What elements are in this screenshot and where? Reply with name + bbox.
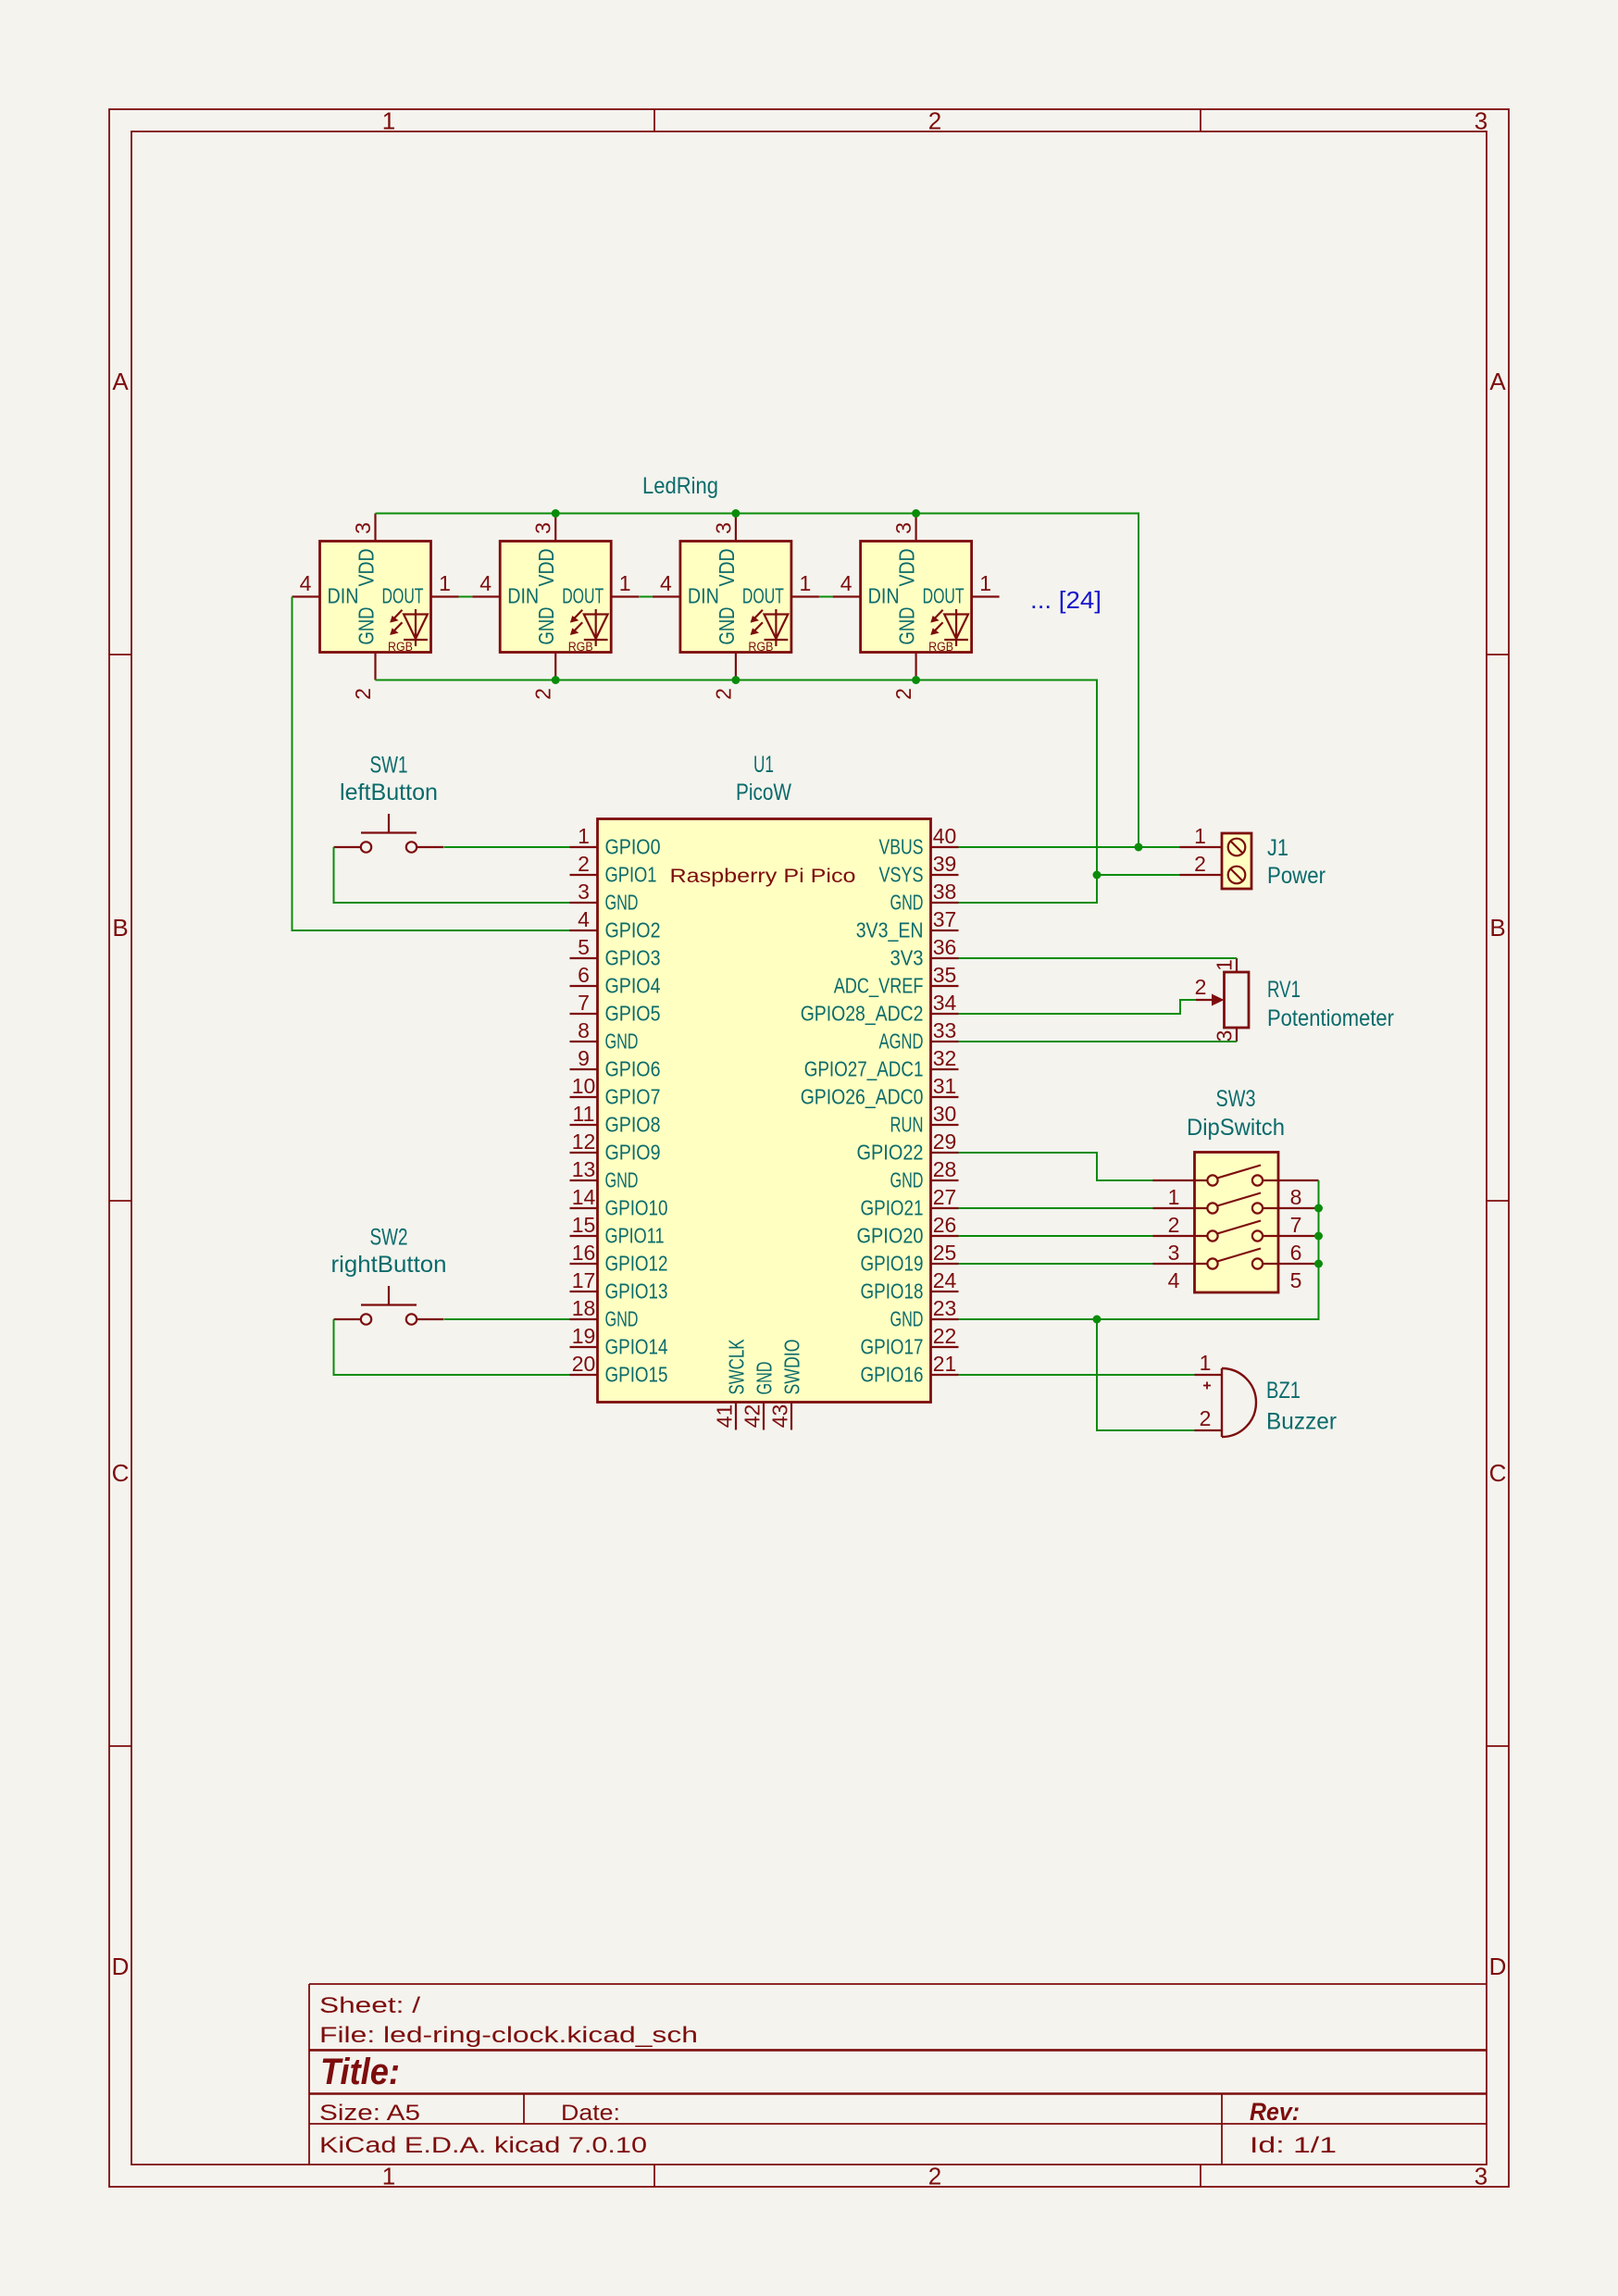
svg-text:Buzzer: Buzzer: [1266, 1409, 1337, 1435]
svg-text:2: 2: [1200, 1406, 1212, 1430]
svg-text:PicoW: PicoW: [736, 780, 791, 805]
svg-text:2: 2: [711, 688, 735, 700]
svg-text:GPIO0: GPIO0: [605, 835, 661, 859]
svg-text:GND: GND: [715, 607, 739, 645]
svg-text:2: 2: [891, 688, 915, 700]
SW3 pin 1: [1153, 1180, 1208, 1209]
LED D2 body: [500, 542, 611, 653]
sheet frame outer border: [109, 109, 1509, 2187]
svg-text:D: D: [1489, 1953, 1507, 1980]
svg-text:Sheet: /: Sheet: /: [319, 1993, 420, 2018]
svg-text:3: 3: [1213, 1030, 1237, 1042]
U1 pin 25 GPIO19: [861, 1241, 959, 1276]
frame column ticks: [654, 109, 1201, 2187]
junction VDD bus at D3: [731, 509, 740, 518]
svg-text:GPIO14: GPIO14: [605, 1335, 668, 1359]
U1 pin 29 GPIO22: [857, 1129, 959, 1165]
wire SW2 to GND pin18: [444, 1318, 570, 1320]
U1 pin 22 GPIO17: [861, 1324, 959, 1359]
junction SW3 pin6: [1314, 1232, 1323, 1241]
svg-text:29: 29: [933, 1129, 957, 1154]
svg-text:6: 6: [1290, 1241, 1302, 1265]
svg-text:Potentiometer: Potentiometer: [1267, 1005, 1394, 1031]
svg-text:7: 7: [1290, 1213, 1302, 1237]
buzzer BZ1 body: [1222, 1368, 1256, 1437]
svg-text:2: 2: [1194, 852, 1206, 876]
svg-text:25: 25: [933, 1241, 957, 1265]
svg-text:1: 1: [382, 2163, 395, 2190]
svg-text:1: 1: [979, 571, 991, 595]
svg-text:1: 1: [800, 571, 812, 595]
U1 pin 27 GPIO21: [861, 1185, 959, 1220]
svg-text:14: 14: [572, 1185, 596, 1209]
svg-text:VSYS: VSYS: [879, 863, 924, 887]
svg-text:AGND: AGND: [879, 1029, 924, 1054]
svg-text:15: 15: [572, 1213, 596, 1237]
svg-text:1: 1: [1200, 1351, 1212, 1375]
U1 pin 8 GND: [570, 1018, 639, 1054]
wire DOUT3-DIN4: [819, 596, 833, 598]
U1 pin 28 GND: [890, 1157, 959, 1192]
LED D1 RGB led glyph: [388, 609, 428, 654]
svg-text:32: 32: [933, 1046, 957, 1070]
wire GND drop to BZ1 pin2: [1097, 1319, 1195, 1430]
svg-text:GND: GND: [890, 1168, 924, 1192]
U1 pin 42 GND: [741, 1362, 777, 1430]
svg-text:18: 18: [572, 1296, 596, 1320]
frame column labels top: [382, 107, 1487, 135]
RV1 pin 3: [1213, 1028, 1238, 1042]
svg-text:GPIO1: GPIO1: [605, 863, 657, 887]
svg-text:GPIO19: GPIO19: [861, 1252, 924, 1276]
U1 pin 10 GPIO7: [570, 1074, 661, 1109]
svg-text:43: 43: [768, 1404, 792, 1429]
svg-text:DOUT: DOUT: [923, 584, 965, 608]
svg-text:rightButton: rightButton: [331, 1252, 447, 1278]
U1 pin 33 AGND: [879, 1018, 959, 1054]
RV1 pin 2 wiper: [1195, 975, 1225, 1006]
svg-text:2: 2: [531, 688, 555, 700]
LED D4 RGB led glyph: [928, 609, 968, 654]
svg-text:3: 3: [1475, 2163, 1487, 2190]
svg-text:1: 1: [619, 571, 631, 595]
svg-text:27: 27: [933, 1185, 957, 1209]
svg-text:GND: GND: [890, 891, 924, 915]
wire SW3 right bus to GND: [959, 1180, 1319, 1319]
junction GND buzzer drop: [1093, 1316, 1101, 1324]
svg-text:B: B: [112, 914, 128, 942]
LED D3 pin 3 VDD: [711, 514, 739, 587]
svg-text:U1: U1: [753, 752, 774, 778]
U1 pin 21 GPIO16: [861, 1352, 959, 1387]
svg-text:1: 1: [578, 824, 590, 848]
svg-text:GPIO10: GPIO10: [605, 1196, 668, 1220]
svg-text:SW1: SW1: [370, 753, 408, 779]
svg-text:GPIO8: GPIO8: [605, 1113, 661, 1137]
J1 screw 1: [1228, 839, 1246, 856]
LED D2 pin 1 DOUT: [562, 571, 639, 608]
U1 pin 34 GPIO28_ADC2: [801, 991, 959, 1026]
SW3 pole 2 contacts and lever: [1207, 1193, 1263, 1214]
svg-text:11: 11: [573, 1102, 595, 1126]
svg-text:19: 19: [572, 1324, 596, 1348]
svg-text:1: 1: [439, 571, 451, 595]
svg-text:3: 3: [1475, 107, 1487, 135]
svg-text:6: 6: [578, 963, 590, 987]
svg-text:2: 2: [351, 688, 375, 700]
U1 pin 41 SWCLK: [713, 1339, 749, 1429]
svg-text:12: 12: [572, 1129, 596, 1154]
junction VDD bus at D4: [912, 509, 920, 518]
U1 pin 39 VSYS: [879, 852, 959, 887]
svg-text:3: 3: [1168, 1241, 1180, 1265]
frame row ticks: [109, 655, 1509, 1746]
svg-text:... [24]: ... [24]: [1030, 586, 1101, 614]
U1 pin 5 GPIO3: [570, 935, 661, 970]
wire GPIO21 to SW3 pin2: [959, 1207, 1153, 1209]
svg-text:GPIO12: GPIO12: [605, 1252, 668, 1276]
svg-text:GPIO5: GPIO5: [605, 1002, 661, 1026]
svg-text:GPIO17: GPIO17: [861, 1335, 924, 1359]
wire DOUT1-DIN2: [459, 596, 473, 598]
SW3 pin 2: [1153, 1208, 1208, 1237]
switch SW1 leftButton: [334, 753, 444, 853]
svg-text:VDD: VDD: [534, 549, 558, 587]
svg-text:GPIO27_ADC1: GPIO27_ADC1: [804, 1057, 924, 1081]
wire SW1 to GPIO0: [444, 846, 570, 848]
svg-text:GND: GND: [605, 1168, 639, 1192]
svg-text:GPIO22: GPIO22: [857, 1141, 924, 1165]
svg-text:4: 4: [1168, 1268, 1180, 1292]
svg-text:GPIO15: GPIO15: [605, 1363, 668, 1387]
svg-text:RUN: RUN: [890, 1113, 924, 1137]
U1 pin 36 3V3: [890, 935, 959, 970]
svg-text:21: 21: [933, 1352, 957, 1376]
svg-text:GND: GND: [890, 1307, 924, 1331]
svg-text:1: 1: [1213, 959, 1237, 971]
title block outline: [309, 1984, 1487, 2165]
svg-text:GPIO6: GPIO6: [605, 1057, 661, 1081]
U1 pin 2 GPIO1: [570, 852, 657, 887]
SW3 pin 6: [1263, 1236, 1318, 1265]
svg-text:GPIO13: GPIO13: [605, 1279, 668, 1304]
U1 pin 32 GPIO27_ADC1: [804, 1046, 959, 1081]
SW3 pole 3 contacts and lever: [1207, 1221, 1263, 1242]
LED D2 pin 2 GND: [531, 607, 559, 700]
svg-text:31: 31: [933, 1074, 957, 1098]
junction SW3 pin5: [1314, 1260, 1323, 1268]
svg-text:VDD: VDD: [715, 549, 739, 587]
svg-text:4: 4: [578, 907, 590, 931]
svg-text:VDD: VDD: [355, 549, 379, 587]
svg-text:GPIO18: GPIO18: [861, 1279, 924, 1304]
junction SW3 pin7: [1314, 1204, 1323, 1213]
svg-text:GND: GND: [605, 891, 639, 915]
LED D1 body: [320, 542, 431, 653]
svg-text:RV1: RV1: [1267, 977, 1301, 1003]
U1 pin 30 RUN: [890, 1102, 959, 1137]
frame row labels right: [1489, 368, 1507, 1980]
U1 pin 4 GPIO2: [570, 907, 661, 942]
LED D4 pin 4 DIN: [833, 571, 900, 608]
svg-text:5: 5: [578, 935, 590, 959]
J1 pin 2: [1180, 852, 1223, 876]
svg-text:GND: GND: [605, 1029, 639, 1054]
wire AGND to RV1 pin3: [959, 1041, 1238, 1042]
svg-text:37: 37: [933, 907, 957, 931]
svg-text:2: 2: [928, 2163, 941, 2190]
SW3 pole 4 contacts and lever: [1207, 1249, 1263, 1269]
svg-text:SW2: SW2: [370, 1225, 408, 1251]
svg-text:SWCLK: SWCLK: [725, 1339, 749, 1394]
U1 pin 18 GND: [570, 1296, 639, 1331]
U1 pin 24 GPIO18: [861, 1268, 959, 1304]
svg-text:22: 22: [933, 1324, 957, 1348]
LED D2 pin 4 DIN: [472, 571, 539, 608]
svg-text:Date:: Date:: [561, 2101, 620, 2126]
LED D4 pin 3 VDD: [891, 514, 919, 587]
svg-text:Power: Power: [1267, 863, 1326, 889]
SW3 pin 5: [1263, 1264, 1318, 1292]
SW3 pin 8: [1263, 1180, 1318, 1209]
svg-text:8: 8: [1290, 1185, 1302, 1209]
svg-text:2: 2: [1195, 975, 1207, 999]
svg-text:4: 4: [660, 571, 672, 595]
frame column labels bottom: [382, 2163, 1487, 2190]
U1 pin 40 VBUS: [879, 824, 959, 859]
svg-text:2: 2: [1168, 1213, 1180, 1237]
svg-text:3: 3: [891, 522, 915, 534]
wire GPIO20 to SW3 pin3: [959, 1235, 1153, 1237]
J1 pin 1: [1180, 824, 1223, 848]
junction VDD bus at D2: [552, 509, 560, 518]
svg-text:GPIO28_ADC2: GPIO28_ADC2: [801, 1002, 924, 1026]
svg-text:GPIO16: GPIO16: [861, 1363, 924, 1387]
svg-text:GND: GND: [534, 607, 558, 645]
U1 pin 43 SWDIO: [768, 1340, 804, 1430]
svg-text:GPIO20: GPIO20: [857, 1224, 924, 1248]
svg-text:Rev:: Rev:: [1250, 2098, 1300, 2126]
svg-text:DOUT: DOUT: [742, 584, 784, 608]
svg-text:1: 1: [1194, 824, 1206, 848]
svg-text:GND: GND: [753, 1362, 777, 1395]
svg-text:GPIO2: GPIO2: [605, 918, 661, 942]
wire LED GND bus bottom: [376, 680, 1098, 904]
svg-text:D: D: [112, 1953, 130, 1980]
wire DOUT2-DIN3: [639, 596, 653, 598]
svg-text:GPIO3: GPIO3: [605, 946, 661, 970]
svg-text:1: 1: [382, 107, 395, 135]
svg-text:VBUS: VBUS: [879, 835, 924, 859]
U1 pin 23 GND: [890, 1296, 959, 1331]
svg-text:File: led-ring-clock.kicad_sch: File: led-ring-clock.kicad_sch: [319, 2023, 698, 2048]
wire GPIO28_ADC2 to RV1 wiper: [959, 1000, 1197, 1014]
J1 screw 2: [1228, 867, 1246, 884]
resistor RV1 Potentiometer body: [1225, 972, 1250, 1028]
svg-text:26: 26: [933, 1213, 957, 1237]
svg-text:34: 34: [933, 991, 957, 1015]
U1 pin 20 GPIO15: [570, 1352, 668, 1387]
svg-text:GPIO11: GPIO11: [605, 1224, 665, 1248]
svg-text:42: 42: [741, 1404, 765, 1429]
svg-text:Raspberry Pi Pico: Raspberry Pi Pico: [670, 866, 856, 887]
switch SW2 rightButton: [331, 1225, 447, 1325]
IC U1 PicoW body: [598, 819, 931, 1403]
svg-text:B: B: [1489, 914, 1505, 942]
U1 pin 37 3V3_EN: [856, 907, 959, 942]
wire 3V3 to RV1 pin1: [959, 957, 1238, 959]
svg-text:30: 30: [933, 1102, 957, 1126]
U1 pin 15 GPIO11: [570, 1213, 665, 1248]
svg-text:RGB: RGB: [388, 640, 413, 654]
svg-text:38: 38: [933, 880, 957, 904]
svg-text:DipSwitch: DipSwitch: [1187, 1115, 1285, 1141]
LED D3 pin 4 DIN: [653, 571, 719, 608]
svg-text:A: A: [1489, 368, 1506, 395]
LED D1 pin 4 DIN: [292, 571, 359, 608]
U1 pin 17 GPIO13: [570, 1268, 668, 1304]
junction GND bus at D2: [552, 676, 560, 684]
svg-text:41: 41: [713, 1404, 737, 1429]
svg-text:GPIO9: GPIO9: [605, 1141, 661, 1165]
RV1 pin 1: [1213, 958, 1238, 972]
LED D2 pin 3 VDD: [531, 514, 559, 587]
svg-text:leftButton: leftButton: [340, 780, 438, 805]
wire SW2 to GPIO15: [334, 1319, 570, 1375]
LED D2 RGB led glyph: [568, 609, 608, 654]
svg-text:C: C: [112, 1459, 130, 1487]
svg-text:3: 3: [531, 522, 555, 534]
U1 pin 38 GND: [890, 880, 959, 915]
svg-text:16: 16: [572, 1241, 596, 1265]
svg-text:BZ1: BZ1: [1266, 1378, 1301, 1404]
wire GPIO16 to BZ1 pin1: [959, 1374, 1195, 1376]
LED D3 pin 2 GND: [711, 607, 739, 700]
wire GPIO22 to SW3 pin1: [959, 1153, 1153, 1180]
svg-text:GND: GND: [355, 607, 379, 645]
svg-text:GPIO4: GPIO4: [605, 974, 661, 998]
U1 pin 11 GPIO8: [570, 1102, 661, 1137]
svg-text:1: 1: [1168, 1185, 1180, 1209]
junction GND bus J1: [1093, 871, 1101, 880]
wire VBUS to J1 pin1: [959, 846, 1180, 848]
svg-text:4: 4: [840, 571, 853, 595]
U1 pin 1 GPIO0: [570, 824, 661, 859]
switch SW3 DipSwitch body: [1195, 1153, 1279, 1293]
svg-text:GPIO7: GPIO7: [605, 1085, 661, 1109]
svg-text:39: 39: [933, 852, 957, 876]
svg-text:RGB: RGB: [748, 640, 773, 654]
svg-text:20: 20: [572, 1352, 596, 1376]
svg-text:GND: GND: [895, 607, 919, 645]
LED D1 pin 2 GND: [351, 607, 379, 700]
svg-text:GPIO21: GPIO21: [861, 1196, 924, 1220]
svg-text:VDD: VDD: [895, 549, 919, 587]
U1 pin 12 GPIO9: [570, 1129, 661, 1165]
svg-text:40: 40: [933, 824, 957, 848]
junction GND bus at D3: [731, 676, 740, 684]
U1 pin 6 GPIO4: [570, 963, 661, 998]
svg-text:36: 36: [933, 935, 957, 959]
svg-text:10: 10: [572, 1074, 596, 1098]
LED D3 RGB led glyph: [748, 609, 788, 654]
U1 pin 26 GPIO20: [857, 1213, 959, 1248]
svg-text:3V3: 3V3: [890, 946, 924, 970]
svg-text:SWDIO: SWDIO: [780, 1340, 804, 1395]
sheet frame inner border: [131, 131, 1487, 2165]
svg-text:23: 23: [933, 1296, 957, 1320]
svg-text:7: 7: [578, 991, 590, 1015]
connector J1 Power body: [1222, 833, 1251, 889]
svg-text:4: 4: [479, 571, 492, 595]
U1 pin 13 GND: [570, 1157, 639, 1192]
wire GPIO19 to SW3 pin4: [959, 1263, 1153, 1265]
svg-text:DOUT: DOUT: [562, 584, 604, 608]
U1 pin 19 GPIO14: [570, 1324, 668, 1359]
U1 pin 14 GPIO10: [570, 1185, 668, 1220]
LED D3 body: [680, 542, 791, 653]
svg-text:Size: A5: Size: A5: [319, 2101, 420, 2126]
LED D1 pin 1 DOUT: [382, 571, 459, 608]
LED D1 pin 3 VDD: [351, 514, 379, 587]
SW3 pin 4: [1153, 1264, 1208, 1292]
wire DIN1 to GPIO2: [292, 597, 570, 931]
svg-text:ADC_VREF: ADC_VREF: [834, 974, 924, 998]
BZ1 pin 2: [1195, 1406, 1223, 1430]
svg-text:2: 2: [928, 107, 941, 135]
svg-text:RGB: RGB: [928, 640, 953, 654]
svg-text:GND: GND: [605, 1307, 639, 1331]
svg-text:3V3_EN: 3V3_EN: [856, 918, 924, 942]
LED D3 pin 1 DOUT: [742, 571, 819, 608]
U1 pin 31 GPIO26_ADC0: [801, 1074, 959, 1109]
frame row labels left: [112, 368, 130, 1980]
svg-text:17: 17: [572, 1268, 596, 1292]
svg-text:4: 4: [300, 571, 312, 595]
svg-text:LedRing: LedRing: [642, 473, 718, 499]
svg-text:9: 9: [578, 1046, 590, 1070]
svg-text:C: C: [1489, 1459, 1507, 1487]
svg-text:28: 28: [933, 1157, 957, 1181]
junction VBUS LED feed: [1135, 843, 1143, 852]
svg-text:SW3: SW3: [1216, 1086, 1256, 1112]
wire LED VDD bus top: [376, 514, 1139, 848]
BZ1 pin 1 plus: [1195, 1351, 1223, 1390]
U1 pin 9 GPIO6: [570, 1046, 661, 1081]
svg-text:33: 33: [933, 1018, 957, 1042]
LED D4 body: [861, 542, 972, 653]
svg-text:13: 13: [572, 1157, 596, 1181]
U1 pin 3 GND: [570, 880, 639, 915]
svg-text:3: 3: [711, 522, 735, 534]
junction GND bus at D4: [912, 676, 920, 684]
wire SW1 to GND pin3: [334, 847, 570, 903]
svg-text:J1: J1: [1267, 835, 1288, 861]
SW3 pin 3: [1153, 1236, 1208, 1265]
U1 pin 35 ADC_VREF: [834, 963, 959, 998]
svg-text:5: 5: [1290, 1268, 1302, 1292]
svg-text:GPIO26_ADC0: GPIO26_ADC0: [801, 1085, 924, 1109]
svg-text:3: 3: [578, 880, 590, 904]
svg-text:2: 2: [578, 852, 590, 876]
svg-text:Title:: Title:: [320, 2052, 400, 2092]
svg-text:A: A: [112, 368, 129, 395]
SW3 pin 7: [1263, 1208, 1318, 1237]
svg-text:Id: 1/1: Id: 1/1: [1250, 2133, 1337, 2158]
LED D4 pin 2 GND: [891, 607, 919, 700]
svg-text:24: 24: [933, 1268, 957, 1292]
LED D4 pin 1 DOUT: [923, 571, 1000, 608]
